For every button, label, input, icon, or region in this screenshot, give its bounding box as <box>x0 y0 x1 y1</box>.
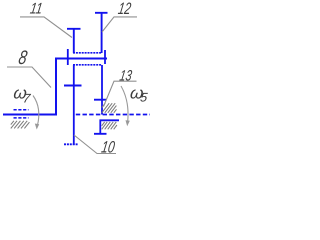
svg-text:5: 5 <box>139 91 149 105</box>
gear bar on upper shaft right <box>104 50 106 64</box>
gear 8 cross bar <box>64 85 82 87</box>
sleeve connecting gears 11-12 <box>73 52 102 54</box>
svg-text:8: 8 <box>17 47 29 69</box>
svg-text:11: 11 <box>29 0 44 17</box>
gear 11 <box>67 29 81 53</box>
input shaft with bent link to upper shaft <box>3 59 107 115</box>
gear bar on upper shaft left <box>67 49 69 65</box>
omega7 arrowhead <box>35 124 39 130</box>
omega5 arrowhead <box>126 120 130 126</box>
gear 12 <box>95 13 108 53</box>
omega7 arrow arc <box>33 96 39 127</box>
svg-text:12: 12 <box>117 0 132 18</box>
right lower support hatch <box>102 122 117 129</box>
lower link left leg (gear 8 shaft) <box>73 65 75 145</box>
lower link top <box>73 64 102 66</box>
leader 11 <box>20 17 72 38</box>
gear 13 cross bar <box>94 99 107 101</box>
leader 10 <box>74 135 116 154</box>
svg-text:13: 13 <box>118 67 133 84</box>
leader 12 <box>102 17 137 32</box>
svg-text:7: 7 <box>22 92 32 106</box>
leader 13 <box>104 81 137 106</box>
right upper support hatch <box>102 103 117 113</box>
left support hatch <box>11 121 30 129</box>
left bearing lower dash <box>14 117 29 119</box>
bottom end bar <box>64 143 79 145</box>
lower link right leg <box>101 65 103 115</box>
left bearing upper dash <box>14 109 29 111</box>
leader 8 <box>7 67 51 88</box>
omega5 arrow arc <box>121 86 128 122</box>
main axis dashed line <box>76 114 150 116</box>
right lower support frame <box>94 120 119 134</box>
